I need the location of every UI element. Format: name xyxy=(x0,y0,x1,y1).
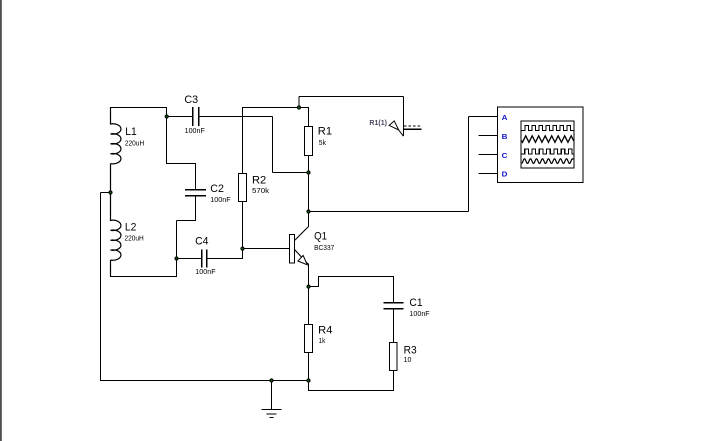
svg-text:220uH: 220uH xyxy=(125,234,144,243)
svg-text:C1: C1 xyxy=(409,297,422,309)
svg-text:1k: 1k xyxy=(319,336,326,345)
svg-text:C3: C3 xyxy=(184,94,198,106)
svg-text:100nF: 100nF xyxy=(185,126,206,135)
svg-text:220uH: 220uH xyxy=(125,139,144,148)
svg-text:10: 10 xyxy=(404,355,412,364)
svg-text:570k: 570k xyxy=(252,186,269,195)
svg-text:L2: L2 xyxy=(125,222,136,234)
svg-text:L1: L1 xyxy=(125,126,137,138)
svg-text:R1: R1 xyxy=(318,126,332,138)
svg-text:R1(1): R1(1) xyxy=(369,120,387,127)
svg-text:A: A xyxy=(502,113,508,122)
svg-text:B: B xyxy=(502,132,508,141)
svg-text:R4: R4 xyxy=(318,325,332,337)
svg-text:5k: 5k xyxy=(319,138,327,147)
svg-text:C4: C4 xyxy=(195,235,208,247)
svg-text:BC337: BC337 xyxy=(314,243,334,252)
svg-text:D: D xyxy=(502,169,508,178)
svg-text:Q1: Q1 xyxy=(314,231,327,243)
svg-text:C2: C2 xyxy=(210,183,224,195)
svg-text:C: C xyxy=(502,151,508,160)
svg-text:100nF: 100nF xyxy=(409,309,430,318)
svg-text:100nF: 100nF xyxy=(210,195,231,204)
svg-text:R2: R2 xyxy=(252,175,266,187)
svg-text:100nF: 100nF xyxy=(195,267,216,276)
